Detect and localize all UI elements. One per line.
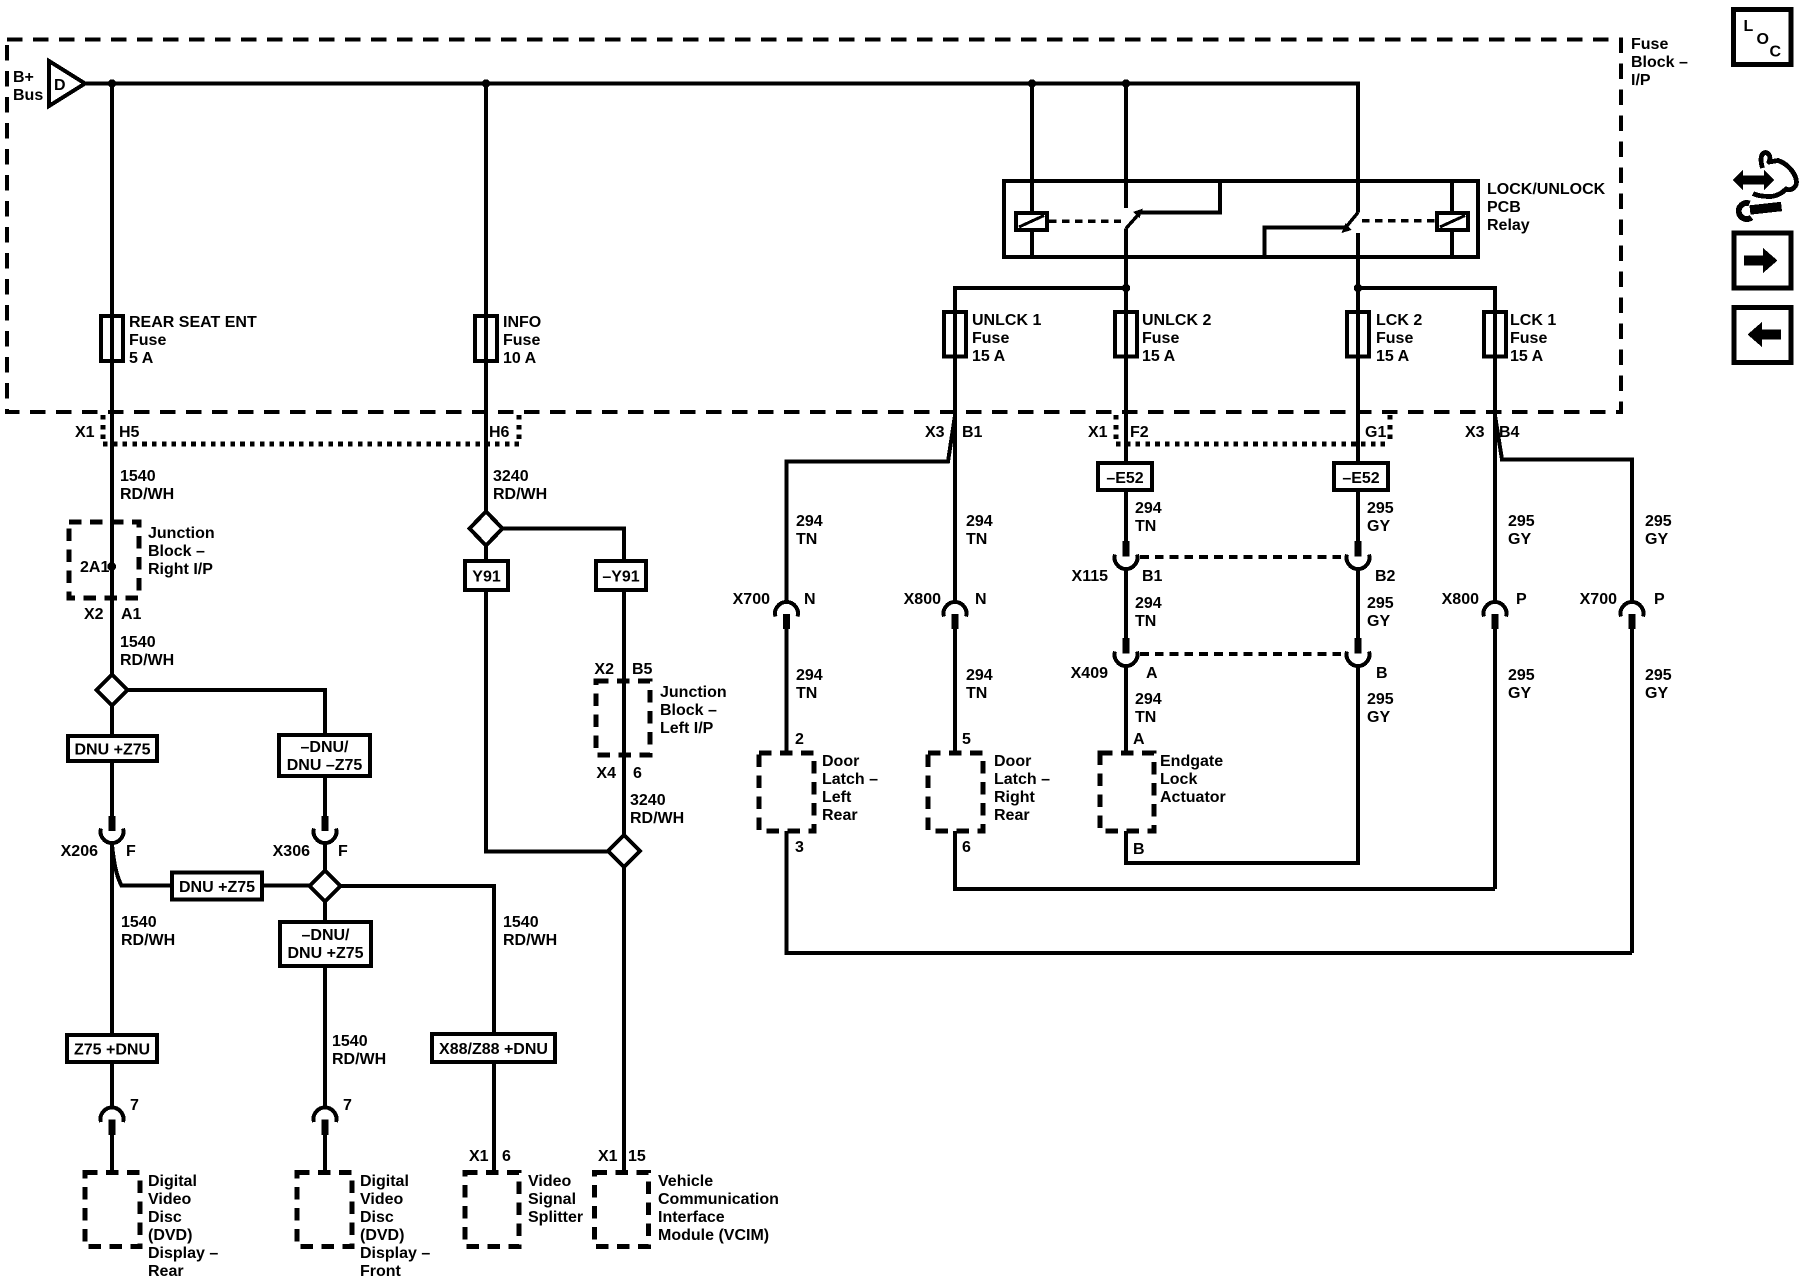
relay coil2 dashed actuator line bbox=[1362, 219, 1435, 223]
relay U1 LOCK/UNLOCK PCB box bbox=[1004, 181, 1478, 257]
svg-text:Endgate: Endgate bbox=[1160, 753, 1223, 770]
label X700 N bbox=[733, 591, 816, 608]
connector X206 pin F bbox=[100, 816, 123, 843]
label fuse UNLCK 2 bbox=[1142, 312, 1211, 365]
svg-text:7: 7 bbox=[130, 1097, 139, 1114]
wire LCK1 fuse to pin B4 bbox=[1493, 357, 1497, 415]
wire diamond3 down through Y91 bbox=[486, 546, 608, 852]
fuse F6 LCK1 15A bbox=[1484, 312, 1506, 357]
label VCIM bbox=[658, 1173, 779, 1244]
label wire 295 GY right lower bbox=[1508, 667, 1535, 702]
junction block right I/P dashed box bbox=[69, 522, 139, 598]
svg-text:295: 295 bbox=[1367, 595, 1394, 612]
wire X700 P down bbox=[1630, 629, 1634, 953]
svg-text:5: 5 bbox=[962, 731, 971, 748]
wire DVD rear stub bbox=[110, 1135, 114, 1173]
svg-text:GY: GY bbox=[1367, 613, 1390, 630]
connector strip X1 F2-G1 dotted bbox=[1116, 415, 1390, 444]
svg-text:Latch –: Latch – bbox=[994, 771, 1050, 788]
svg-text:A1: A1 bbox=[121, 606, 142, 623]
svg-text:Rear: Rear bbox=[994, 807, 1030, 824]
fuse F2 INFO 10A bbox=[475, 316, 497, 361]
svg-text:Splitter: Splitter bbox=[528, 1209, 583, 1226]
svg-text:UNLCK 2: UNLCK 2 bbox=[1142, 312, 1211, 329]
svg-text:RD/WH: RD/WH bbox=[493, 486, 547, 503]
svg-text:Block –: Block – bbox=[148, 543, 205, 560]
svg-text:RD/WH: RD/WH bbox=[332, 1051, 386, 1068]
label junction block right I/P 2A1 bbox=[80, 525, 215, 578]
svg-text:B1: B1 bbox=[962, 424, 983, 441]
relay coil1 box bbox=[1016, 213, 1047, 230]
label wire 294 TN mid lower bbox=[966, 667, 993, 702]
wire through UNLCK2 fuse bbox=[1124, 310, 1128, 358]
svg-text:B1: B1 bbox=[1142, 568, 1163, 585]
svg-text:Video: Video bbox=[528, 1173, 572, 1190]
svg-text:Front: Front bbox=[360, 1263, 402, 1280]
labels fuse block pins row bbox=[75, 424, 1520, 441]
svg-text:Fuse: Fuse bbox=[1376, 330, 1413, 347]
component box DVD display rear dashed bbox=[85, 1173, 140, 1247]
svg-text:TN: TN bbox=[966, 685, 987, 702]
svg-text:A: A bbox=[1133, 731, 1145, 748]
wire DVD front stub bbox=[323, 1135, 327, 1173]
label wire 1540 RD/WH second bbox=[120, 634, 174, 669]
icon wrench bbox=[1739, 203, 1782, 219]
svg-text:Junction: Junction bbox=[148, 525, 215, 542]
wire diamond1 right to -DNU/DNU-Z75 bbox=[128, 690, 326, 816]
label wire 1540 RD/WH upper bbox=[120, 468, 174, 503]
svg-text:G1: G1 bbox=[1365, 424, 1386, 441]
splice diamond3 3240 RD/WH bbox=[470, 512, 503, 546]
svg-text:Rear: Rear bbox=[148, 1263, 184, 1280]
label B+ Bus bbox=[13, 69, 43, 104]
svg-text:X800: X800 bbox=[904, 591, 941, 608]
component box VCIM dashed bbox=[595, 1173, 649, 1247]
wire through LCK1 fuse bbox=[1493, 310, 1497, 358]
wire splice to DNU+Z75 down bbox=[110, 706, 114, 817]
label box -DNU/DNU +Z75 bbox=[280, 922, 371, 966]
labels latch pin numbers top bbox=[795, 731, 1145, 748]
svg-text:DNU –Z75: DNU –Z75 bbox=[287, 757, 363, 774]
wire pin B1 294 TN down to X800 N bbox=[953, 414, 957, 602]
svg-text:L: L bbox=[1744, 18, 1754, 35]
icon LOC box bbox=[1734, 10, 1792, 65]
svg-text:Vehicle: Vehicle bbox=[658, 1173, 713, 1190]
svg-text:X2: X2 bbox=[84, 606, 104, 623]
label X700 P bbox=[1580, 591, 1665, 608]
svg-text:DNU +Z75: DNU +Z75 bbox=[179, 879, 255, 896]
svg-text:2: 2 bbox=[795, 731, 804, 748]
svg-text:6: 6 bbox=[633, 765, 642, 782]
svg-text:1540: 1540 bbox=[120, 468, 156, 485]
relay switch1 fixed contact L wire bbox=[1141, 183, 1220, 213]
connector DVD front pin 7 bbox=[314, 1107, 337, 1135]
svg-text:Interface: Interface bbox=[658, 1209, 725, 1226]
wire X206 branch curve to horizontal bbox=[112, 845, 122, 886]
svg-text:H5: H5 bbox=[119, 424, 140, 441]
wire relay switch2 output to fuses bbox=[1356, 233, 1360, 288]
wire UNLCK1 fuse to pin B1 bbox=[953, 357, 957, 415]
wire X409 A to endgate pin A 294 TN bbox=[1124, 667, 1128, 754]
svg-text:Junction: Junction bbox=[660, 684, 727, 701]
fuse F1 REAR SEAT ENT 5A bbox=[101, 316, 123, 361]
wire door latch right pin 6 to X800 P bottom bbox=[955, 831, 1495, 889]
svg-text:(DVD): (DVD) bbox=[360, 1227, 404, 1244]
label wire 294 TN center lower bbox=[1135, 691, 1162, 726]
svg-text:–DNU/: –DNU/ bbox=[301, 927, 350, 944]
svg-text:295: 295 bbox=[1508, 513, 1535, 530]
svg-text:294: 294 bbox=[796, 667, 823, 684]
svg-text:RD/WH: RD/WH bbox=[630, 810, 684, 827]
svg-text:Right: Right bbox=[994, 789, 1036, 806]
node 2A1 junction block dot bbox=[107, 562, 116, 571]
svg-text:Fuse: Fuse bbox=[1631, 36, 1668, 53]
label DVD display front bbox=[360, 1173, 430, 1280]
wire UNLCK fuse feed horizontal bbox=[955, 288, 1126, 312]
label wire 294 TN left upper bbox=[796, 513, 823, 548]
svg-text:LCK 1: LCK 1 bbox=[1510, 312, 1556, 329]
fuse F3 UNLCK1 15A bbox=[944, 312, 966, 357]
relay coil1 dashed actuator line bbox=[1049, 219, 1121, 223]
svg-text:B: B bbox=[1376, 665, 1388, 682]
B+ Bus triangle D bbox=[49, 61, 85, 106]
wire diamond2 down to DVD front bbox=[323, 902, 327, 1109]
svg-text:Display –: Display – bbox=[360, 1245, 430, 1262]
svg-text:H6: H6 bbox=[489, 424, 510, 441]
svg-text:REAR SEAT ENT: REAR SEAT ENT bbox=[129, 314, 257, 331]
svg-text:B2: B2 bbox=[1375, 568, 1396, 585]
icon arrow box right bbox=[1734, 233, 1791, 288]
wire pin B4 295 GY down to X800 P bbox=[1493, 414, 1497, 602]
component box video signal splitter dashed bbox=[465, 1173, 519, 1247]
svg-text:I/P: I/P bbox=[1631, 72, 1651, 89]
svg-text:–DNU/: –DNU/ bbox=[300, 739, 349, 756]
svg-text:GY: GY bbox=[1367, 709, 1390, 726]
labels latch pin numbers bottom bbox=[795, 839, 1145, 858]
svg-text:X1: X1 bbox=[75, 424, 95, 441]
svg-text:X1: X1 bbox=[1088, 424, 1108, 441]
label wire 295 GY center lower bbox=[1367, 691, 1394, 726]
wire X115 B1 to X409 A 294 TN bbox=[1124, 570, 1128, 639]
node bus-INFO bbox=[482, 79, 490, 87]
svg-text:X306: X306 bbox=[273, 843, 310, 860]
junction block left I/P dashed box bbox=[596, 681, 650, 755]
svg-text:294: 294 bbox=[796, 513, 823, 530]
svg-text:294: 294 bbox=[1135, 691, 1162, 708]
label box -E52 right bbox=[1334, 463, 1388, 490]
svg-text:X409: X409 bbox=[1071, 665, 1108, 682]
svg-text:Signal: Signal bbox=[528, 1191, 576, 1208]
svg-text:5 A: 5 A bbox=[129, 350, 154, 367]
svg-text:X2: X2 bbox=[594, 661, 614, 678]
svg-text:B+: B+ bbox=[13, 69, 34, 86]
svg-text:3: 3 bbox=[795, 839, 804, 856]
svg-text:TN: TN bbox=[1135, 709, 1156, 726]
label X2 A1 bbox=[84, 606, 142, 623]
connector DVD rear pin 7 bbox=[100, 1107, 123, 1135]
svg-text:X800: X800 bbox=[1442, 591, 1479, 608]
svg-text:B: B bbox=[1133, 841, 1145, 858]
label wire 1540 RD/WH left lower bbox=[121, 914, 175, 949]
wire X800 P down bbox=[1493, 629, 1497, 889]
svg-text:LCK 2: LCK 2 bbox=[1376, 312, 1422, 329]
wire door latch left pin 3 to X700 P bottom bbox=[787, 831, 1633, 953]
label wire 295 GY center mid bbox=[1367, 595, 1394, 630]
icon arrow box left bbox=[1734, 308, 1791, 363]
svg-text:Z75 +DNU: Z75 +DNU bbox=[74, 1042, 150, 1059]
svg-text:X115: X115 bbox=[1072, 568, 1109, 585]
svg-text:Fuse: Fuse bbox=[129, 332, 166, 349]
label wire 294 TN center upper bbox=[1135, 500, 1162, 535]
component box door latch left rear dashed bbox=[759, 753, 814, 831]
svg-text:X700: X700 bbox=[733, 591, 770, 608]
wire LCK2 fuse to -E52 G1 bbox=[1356, 357, 1360, 464]
svg-text:Left I/P: Left I/P bbox=[660, 720, 714, 737]
label LOCK/UNLOCK PCB relay bbox=[1487, 181, 1606, 234]
node bus-relay coil bbox=[1028, 79, 1036, 87]
svg-text:TN: TN bbox=[1135, 518, 1156, 535]
svg-text:Module (VCIM): Module (VCIM) bbox=[658, 1227, 769, 1244]
fuse F5 LCK2 15A bbox=[1347, 312, 1369, 357]
svg-text:1540: 1540 bbox=[503, 914, 539, 931]
svg-text:Block –: Block – bbox=[660, 702, 717, 719]
label video signal splitter bbox=[528, 1173, 583, 1226]
svg-text:TN: TN bbox=[1135, 613, 1156, 630]
svg-text:10 A: 10 A bbox=[503, 350, 537, 367]
relay switch1 common from bus bbox=[1124, 85, 1128, 208]
wire relay coil1 feed bbox=[1030, 85, 1034, 256]
svg-text:B4: B4 bbox=[1499, 424, 1520, 441]
label wire 3240 RD/WH lower bbox=[630, 792, 684, 827]
svg-text:–E52: –E52 bbox=[1342, 470, 1379, 487]
wire UNLCK2 fuse to -E52 F2 bbox=[1124, 357, 1128, 464]
label fuse REAR SEAT ENT bbox=[129, 314, 257, 367]
svg-text:GY: GY bbox=[1508, 531, 1531, 548]
wire REAR SEAT ENT branch 1540 RD/WH bbox=[110, 84, 114, 675]
svg-text:–E52: –E52 bbox=[1106, 470, 1143, 487]
label box DNU +Z75 upper bbox=[68, 736, 157, 761]
label box -E52 left bbox=[1098, 463, 1152, 490]
fuse F4 UNLCK2 15A bbox=[1115, 312, 1137, 357]
fuse block I/P dashed boundary bbox=[7, 40, 1621, 413]
wire X306 to diamond2 bbox=[323, 844, 327, 871]
svg-text:X1: X1 bbox=[598, 1148, 618, 1165]
label DVD display rear bbox=[148, 1173, 218, 1280]
labels splitter vcim pins X1 6 X1 15 bbox=[469, 1148, 646, 1165]
svg-text:295: 295 bbox=[1367, 500, 1394, 517]
node unlock feed bbox=[1122, 284, 1130, 292]
svg-text:Door: Door bbox=[822, 753, 859, 770]
svg-text:Video: Video bbox=[148, 1191, 192, 1208]
splice diamond 1540 RD/WH bbox=[97, 675, 128, 706]
svg-text:RD/WH: RD/WH bbox=[120, 486, 174, 503]
wire through LCK2 fuse bbox=[1356, 286, 1360, 358]
wire LCK fuse feed horizontal bbox=[1358, 288, 1495, 312]
svg-text:F: F bbox=[338, 843, 348, 860]
svg-text:X3: X3 bbox=[1465, 424, 1485, 441]
label X800 P bbox=[1442, 591, 1527, 608]
connector X409 pin A bbox=[1115, 638, 1138, 666]
svg-text:Lock: Lock bbox=[1160, 771, 1197, 788]
relay switch2 fixed contact L wire bbox=[1265, 228, 1349, 256]
svg-text:X88/Z88 +DNU: X88/Z88 +DNU bbox=[439, 1041, 548, 1058]
wire B+ bus horizontal bbox=[85, 84, 1358, 213]
wire X409 B to X115 B2 295 GY bbox=[1356, 570, 1360, 639]
label X115 B1 B2 bbox=[1072, 568, 1396, 585]
svg-text:TN: TN bbox=[966, 531, 987, 548]
label box X88/Z88 +DNU bbox=[432, 1034, 555, 1062]
svg-text:TN: TN bbox=[796, 531, 817, 548]
svg-text:Door: Door bbox=[994, 753, 1031, 770]
svg-text:15 A: 15 A bbox=[972, 348, 1006, 365]
svg-text:Rear: Rear bbox=[822, 807, 858, 824]
connector X115 pin B1 bbox=[1115, 541, 1138, 569]
svg-text:Fuse: Fuse bbox=[972, 330, 1009, 347]
svg-text:Latch –: Latch – bbox=[822, 771, 878, 788]
wire X206 to Z75+DNU down bbox=[110, 844, 114, 1109]
label box DNU +Z75 horizontal bbox=[172, 873, 262, 900]
wire horizontal DNU+Z75 run bbox=[120, 884, 310, 888]
svg-text:A: A bbox=[1146, 665, 1158, 682]
svg-text:2A1: 2A1 bbox=[80, 559, 109, 576]
svg-text:Fuse: Fuse bbox=[1510, 330, 1547, 347]
label fuse INFO bbox=[503, 314, 541, 367]
label box -Y91 bbox=[596, 561, 646, 590]
wire pin B4 jog right 295 GY bbox=[1495, 416, 1632, 603]
node lock feed bbox=[1354, 284, 1362, 292]
svg-text:UNLCK 1: UNLCK 1 bbox=[972, 312, 1041, 329]
svg-text:Block –: Block – bbox=[1631, 54, 1688, 71]
label wire 3240 RD/WH upper bbox=[493, 468, 547, 503]
label fuse block I/P bbox=[1631, 36, 1688, 89]
relay switch2 blade bbox=[1342, 213, 1359, 234]
wire INFO branch 3240 RD/WH bbox=[484, 84, 488, 512]
wire diamond2 right to video splitter 1540 RD/WH bbox=[341, 886, 495, 1173]
svg-text:1540: 1540 bbox=[121, 914, 157, 931]
label junction block left I/P bbox=[594, 661, 726, 782]
label wire 295 GY far right lower bbox=[1645, 667, 1672, 702]
svg-text:P: P bbox=[1654, 591, 1665, 608]
svg-text:X4: X4 bbox=[596, 765, 616, 782]
svg-text:Display –: Display – bbox=[148, 1245, 218, 1262]
svg-text:Disc: Disc bbox=[360, 1209, 394, 1226]
svg-text:294: 294 bbox=[966, 667, 993, 684]
svg-text:N: N bbox=[804, 591, 816, 608]
svg-text:3240: 3240 bbox=[493, 468, 529, 485]
label box -DNU/DNU -Z75 bbox=[279, 735, 370, 776]
svg-text:15: 15 bbox=[628, 1148, 646, 1165]
svg-text:Fuse: Fuse bbox=[1142, 330, 1179, 347]
svg-text:F2: F2 bbox=[1130, 424, 1149, 441]
svg-text:7: 7 bbox=[343, 1097, 352, 1114]
svg-text:TN: TN bbox=[796, 685, 817, 702]
svg-text:–Y91: –Y91 bbox=[602, 569, 639, 586]
label fuse UNLCK 1 bbox=[972, 312, 1041, 365]
label X206 F bbox=[61, 843, 136, 860]
inline connector dashed link X115 bbox=[1140, 555, 1345, 559]
svg-text:X1: X1 bbox=[469, 1148, 489, 1165]
svg-text:(DVD): (DVD) bbox=[148, 1227, 192, 1244]
component box door latch right rear dashed bbox=[928, 753, 983, 831]
label fuse LCK 1 bbox=[1510, 312, 1556, 365]
label wire 294 TN center mid bbox=[1135, 595, 1162, 630]
svg-text:Digital: Digital bbox=[360, 1173, 409, 1190]
label door latch right rear bbox=[994, 753, 1050, 824]
svg-text:6: 6 bbox=[962, 839, 971, 856]
svg-text:RD/WH: RD/WH bbox=[121, 932, 175, 949]
wire X115 B2 to -E52 295 GY bbox=[1356, 490, 1360, 541]
wire relay switch1 output to fuses bbox=[1124, 229, 1128, 313]
svg-text:1540: 1540 bbox=[120, 634, 156, 651]
svg-text:Communication: Communication bbox=[658, 1191, 779, 1208]
inline connector dashed link X409 bbox=[1140, 652, 1345, 656]
label X409 A B bbox=[1071, 665, 1388, 682]
icon hand with double arrow bbox=[1733, 153, 1796, 197]
svg-text:15 A: 15 A bbox=[1142, 348, 1176, 365]
svg-text:INFO: INFO bbox=[503, 314, 541, 331]
wire -E52 to X115 B1 294 TN bbox=[1124, 490, 1128, 541]
svg-text:D: D bbox=[54, 77, 66, 94]
svg-text:1540: 1540 bbox=[332, 1033, 368, 1050]
label fuse LCK 2 bbox=[1376, 312, 1422, 365]
label box Y91 bbox=[465, 561, 508, 590]
svg-text:GY: GY bbox=[1645, 531, 1668, 548]
wire endgate pin B to X409 B 295 GY bbox=[1126, 667, 1358, 864]
label wire 295 GY center upper bbox=[1367, 500, 1394, 535]
connector strip X1 H5-H6 dotted bbox=[103, 415, 519, 444]
svg-text:Left: Left bbox=[822, 789, 852, 806]
label wire 294 TN mid upper bbox=[966, 513, 993, 548]
wire relay coil2 feed bbox=[1450, 183, 1454, 256]
svg-text:Fuse: Fuse bbox=[503, 332, 540, 349]
label wire 295 GY far right upper bbox=[1645, 513, 1672, 548]
label wire 1540 RD/WH splitter bbox=[503, 914, 557, 949]
connector X800 pin P bbox=[1484, 602, 1507, 629]
svg-text:Digital: Digital bbox=[148, 1173, 197, 1190]
svg-text:Actuator: Actuator bbox=[1160, 789, 1226, 806]
label door latch left rear bbox=[822, 753, 878, 824]
svg-text:6: 6 bbox=[502, 1148, 511, 1165]
wire X800 N to door latch right pin 5 bbox=[953, 629, 957, 753]
component box DVD display front dashed bbox=[297, 1173, 352, 1247]
svg-text:B5: B5 bbox=[632, 661, 653, 678]
svg-text:DNU +Z75: DNU +Z75 bbox=[287, 945, 363, 962]
svg-text:Video: Video bbox=[360, 1191, 404, 1208]
node bus-relay switch1 bbox=[1122, 79, 1130, 87]
svg-text:GY: GY bbox=[1508, 685, 1531, 702]
svg-text:3240: 3240 bbox=[630, 792, 666, 809]
svg-text:F: F bbox=[126, 843, 136, 860]
component box endgate lock actuator dashed bbox=[1100, 753, 1154, 831]
svg-text:PCB: PCB bbox=[1487, 199, 1521, 216]
relay switch1 blade bbox=[1126, 209, 1143, 229]
wire diamond3 right to -Y91 junction block left bbox=[503, 529, 625, 836]
label wire 1540 RD/WH front bbox=[332, 1033, 386, 1068]
svg-text:RD/WH: RD/WH bbox=[120, 652, 174, 669]
connector X409 pin B bbox=[1347, 638, 1370, 666]
svg-text:X700: X700 bbox=[1580, 591, 1617, 608]
connector X700 pin N bbox=[775, 602, 798, 629]
relay coil2 box bbox=[1437, 213, 1468, 230]
label X306 F bbox=[273, 843, 348, 860]
svg-text:X206: X206 bbox=[61, 843, 98, 860]
svg-text:295: 295 bbox=[1508, 667, 1535, 684]
svg-text:Bus: Bus bbox=[13, 87, 43, 104]
svg-text:GY: GY bbox=[1645, 685, 1668, 702]
svg-text:N: N bbox=[975, 591, 987, 608]
svg-text:GY: GY bbox=[1367, 518, 1390, 535]
svg-text:Relay: Relay bbox=[1487, 217, 1530, 234]
